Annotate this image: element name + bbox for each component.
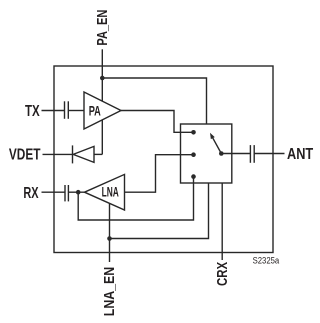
svg-text:ANT: ANT bbox=[287, 146, 313, 163]
svg-text:PA: PA bbox=[89, 103, 101, 119]
svg-text:LNA_EN: LNA_EN bbox=[101, 267, 118, 316]
svg-text:LNA: LNA bbox=[102, 184, 119, 200]
svg-text:RX: RX bbox=[23, 185, 38, 202]
svg-text:PA_EN: PA_EN bbox=[95, 10, 111, 46]
svg-text:S2325a: S2325a bbox=[253, 255, 280, 265]
svg-text:CRX: CRX bbox=[214, 262, 231, 286]
svg-text:VDET: VDET bbox=[9, 146, 41, 163]
svg-text:TX: TX bbox=[25, 103, 40, 120]
